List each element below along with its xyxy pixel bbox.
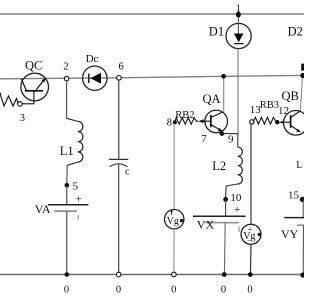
node 0 (Vg2)	[171, 272, 176, 295]
svg-text:VY: VY	[281, 227, 299, 241]
svg-text:Dc: Dc	[86, 53, 99, 65]
wire node 2 down	[66, 81, 68, 119]
svg-text:7: 7	[201, 133, 207, 145]
svg-text:L2: L2	[212, 159, 226, 173]
node 0 (Vg3)	[247, 272, 252, 295]
svg-text:15: 15	[288, 190, 300, 202]
svg-text:+: +	[76, 194, 82, 205]
battery VA	[35, 194, 89, 219]
battery VY	[281, 218, 304, 241]
wire VY to bottom rail	[302, 225, 304, 275]
svg-text:QB: QB	[282, 89, 299, 103]
node 8	[167, 117, 177, 128]
svg-text:c: c	[125, 167, 130, 178]
svg-text:RB3: RB3	[260, 100, 279, 111]
svg-text:0: 0	[116, 284, 121, 295]
wire node 6 down	[118, 80, 120, 159]
svg-text:0: 0	[171, 284, 176, 295]
resistor RB2	[175, 110, 198, 124]
svg-text:L1: L1	[60, 144, 74, 158]
svg-text:L: L	[296, 160, 302, 171]
transistor QC	[21, 59, 49, 104]
wire QA collector to middle rail	[223, 76, 225, 111]
svg-text:0: 0	[247, 284, 252, 295]
label fragment at right edge	[301, 64, 304, 71]
svg-text:3: 3	[20, 113, 25, 124]
svg-text:+: +	[234, 204, 240, 216]
wire c to bottom rail	[118, 165, 120, 275]
transistor QA	[198, 92, 227, 145]
svg-text:VX: VX	[197, 217, 215, 231]
node 5	[65, 180, 79, 192]
node 13	[250, 104, 262, 124]
wire VA to bottom rail	[66, 211, 68, 274]
node 0 (c)	[116, 272, 121, 295]
wire L1 to node 5	[66, 165, 68, 185]
svg-text:QC: QC	[25, 59, 42, 73]
resistor RB3	[253, 100, 289, 124]
svg-text:2: 2	[63, 61, 69, 73]
wire D1 to node 9	[237, 49, 239, 134]
battery VX	[193, 204, 246, 232]
node 12	[275, 120, 279, 124]
resistor RB1	[0, 93, 18, 107]
node 6	[117, 62, 124, 80]
junction on middle rail	[221, 74, 226, 79]
wire node 10 to VX	[225, 199, 227, 216]
node 2	[63, 61, 69, 81]
wire node 5 to VA	[66, 185, 68, 204]
capacitor c	[109, 159, 130, 177]
svg-text:12: 12	[278, 105, 289, 117]
wire bottom rail	[0, 274, 304, 276]
wire QB collector to middle rail	[300, 76, 302, 111]
wire Vg3 to bottom rail	[249, 244, 252, 274]
svg-text:5: 5	[73, 180, 79, 192]
node 10	[223, 192, 242, 204]
svg-text:D1: D1	[209, 25, 224, 39]
inductor L1	[60, 118, 83, 165]
svg-text:−: −	[247, 236, 252, 246]
svg-text:0: 0	[221, 284, 226, 295]
svg-text:0: 0	[64, 284, 69, 295]
node 3	[18, 102, 25, 124]
svg-text:RB2: RB2	[175, 110, 194, 121]
svg-text:Vg: Vg	[167, 216, 179, 227]
wire node 8 to Vg2	[173, 124, 175, 210]
node 1	[236, 4, 241, 18]
source Vg2	[165, 210, 184, 229]
svg-text:QA: QA	[203, 92, 221, 106]
wire top rail	[0, 13, 304, 15]
node 9	[220, 131, 234, 145]
wire node 9 to L2	[222, 133, 238, 135]
diode D1	[209, 17, 251, 49]
node 0 (VX)	[221, 272, 227, 295]
wire VX to bottom rail	[223, 223, 226, 275]
svg-text:6: 6	[119, 62, 124, 73]
diode Dc	[83, 53, 107, 90]
junction node 0 (VA)	[64, 272, 69, 295]
wire L2 to node 10	[226, 184, 238, 198]
junction right edge middle rail	[300, 73, 305, 78]
svg-text:10: 10	[230, 192, 242, 204]
svg-text:D2: D2	[288, 25, 303, 39]
wire node 15 to VY	[302, 199, 304, 217]
wire middle rail	[0, 75, 304, 78]
svg-text:1: 1	[236, 4, 241, 14]
wire node 13 to Vg3	[250, 124, 252, 224]
node 15	[288, 190, 305, 202]
transistor QB	[279, 89, 308, 135]
inductor L2	[212, 147, 242, 184]
source Vg3	[241, 224, 261, 245]
node 0 (right edge)	[300, 272, 305, 277]
svg-text:9: 9	[228, 134, 234, 146]
wire Vg2 to bottom rail	[173, 229, 175, 275]
svg-text:VA: VA	[35, 202, 51, 216]
svg-text:8: 8	[167, 117, 172, 128]
